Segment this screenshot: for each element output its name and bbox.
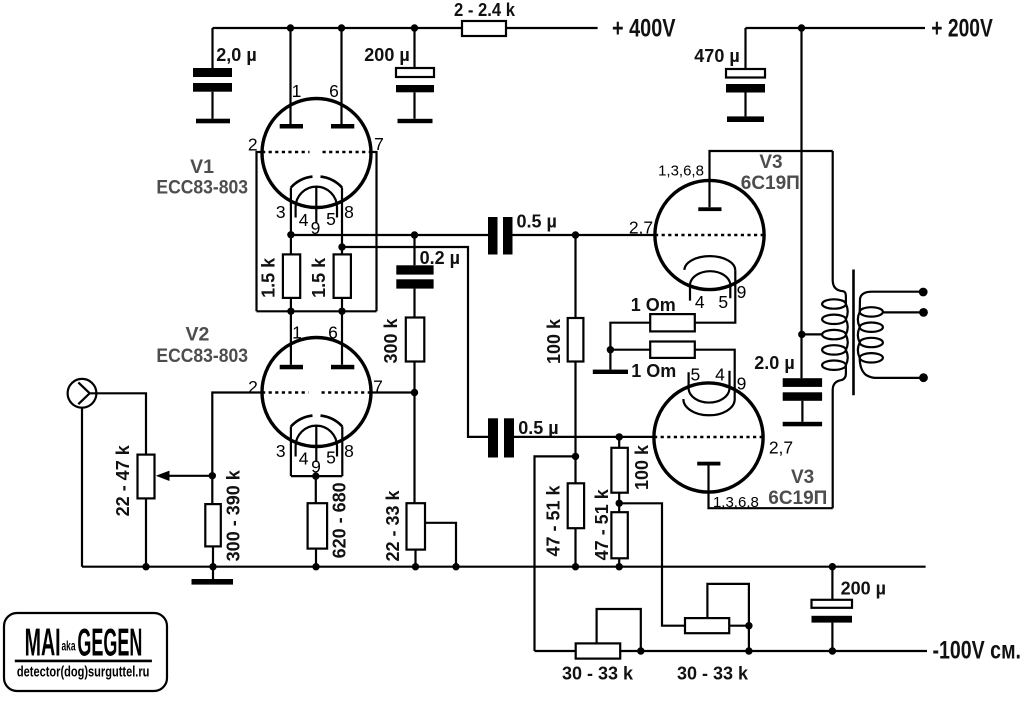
svg-text:0.2 µ: 0.2 µ xyxy=(420,248,460,268)
wire V3b cathode to transformer bottom xyxy=(709,466,833,509)
svg-text:1,3,6,8: 1,3,6,8 xyxy=(658,163,704,180)
ground under C7 xyxy=(783,422,822,427)
wire R16 tap bridge xyxy=(707,584,749,626)
wire P1 wiper xyxy=(168,475,212,477)
wire V1 pin8 cathode arm xyxy=(341,188,343,255)
svg-text:30 - 33 k: 30 - 33 k xyxy=(562,664,634,684)
svg-text:2 - 2.4 k: 2 - 2.4 k xyxy=(454,0,516,20)
resistor R12 47-51k right xyxy=(611,512,627,558)
junction 0.2u tap xyxy=(411,231,418,238)
wire R16 right lead xyxy=(729,626,749,651)
wire C8 to -100V line xyxy=(831,623,833,651)
wire R3 to junction row xyxy=(341,298,343,311)
junction ground rail at 47-51k left xyxy=(572,563,579,570)
V1 grid dashed line xyxy=(262,151,371,154)
wire V2 pin8 cathode arm xyxy=(341,427,343,477)
V2 anode plate right xyxy=(331,365,354,370)
svg-text:300 k: 300 k xyxy=(381,317,401,363)
junction V1 pin6 on rail xyxy=(338,24,345,31)
resistor R13 1 Om upper xyxy=(650,314,695,331)
resistor R6 300-390k xyxy=(205,504,221,546)
transformer T1 primary turn 4 xyxy=(822,345,846,354)
junction V2 cathode node xyxy=(312,472,319,479)
V3a cathode bar pins 1-3-6-8 xyxy=(698,207,721,211)
resistor R2 1.5k left xyxy=(283,254,300,298)
capacitor C8 200u plate bottom xyxy=(812,616,853,623)
svg-text:5: 5 xyxy=(718,292,728,312)
wire node A to C3 xyxy=(413,235,415,265)
resistor R3 1.5k right xyxy=(334,254,351,298)
wire R8 to ground rail xyxy=(414,550,416,567)
connector J1 pin symbol xyxy=(78,382,96,404)
junction ground rail at R7 xyxy=(312,563,319,570)
resistor R15 30-33k left xyxy=(576,643,621,658)
V3b cathode bar pins 1-3-6-8 xyxy=(697,462,720,466)
wire bias node to -100V line xyxy=(535,456,576,651)
svg-text:6С19П: 6С19П xyxy=(741,173,800,194)
wire +200V rail xyxy=(746,27,926,29)
junction 100k upper tap xyxy=(572,231,579,238)
wire R9 down through cross xyxy=(574,362,576,484)
wire R11 to bias node right xyxy=(618,493,620,513)
transformer T1 primary link 1 xyxy=(846,304,848,319)
svg-text:1: 1 xyxy=(292,81,302,101)
transformer T1 secondary turn 4 xyxy=(860,353,883,362)
junction bias node left xyxy=(572,453,579,460)
svg-text:4: 4 xyxy=(299,210,309,230)
svg-text:5: 5 xyxy=(691,365,701,385)
capacitor C5 0.5u right plate xyxy=(504,418,514,457)
svg-text:1.5 k: 1.5 k xyxy=(309,257,329,298)
transformer T1 primary turn 5 xyxy=(822,361,846,370)
wire V2 pin7 node to R8 xyxy=(413,393,415,504)
svg-text:47 - 51 k: 47 - 51 k xyxy=(544,484,564,556)
junction R16 right node xyxy=(745,622,752,629)
transformer T1 primary turn 3 xyxy=(822,330,846,339)
output terminal 3 xyxy=(919,373,928,382)
wire R15 tap bridge xyxy=(597,609,641,651)
junction R15 output node xyxy=(637,647,644,654)
wire to V2 pin6 xyxy=(341,311,343,365)
junction ground rail at 200u bottom xyxy=(829,563,836,570)
resistor R1 2-2.4k xyxy=(462,21,506,36)
wire V1 pin7 grid lead xyxy=(371,152,377,311)
tube V3a 6C19P envelope xyxy=(655,180,764,289)
capacitor C2 200u plate top (polarized) xyxy=(396,68,434,77)
transformer T1 secondary link 1 xyxy=(858,312,860,327)
capacitor C7 2.0u plate bottom xyxy=(783,392,822,401)
junction ground rail at P1 xyxy=(142,563,149,570)
wire R8 tap xyxy=(425,523,456,567)
wire +400V rail left segment xyxy=(213,27,463,29)
V1 anode plate right xyxy=(331,124,354,129)
wire +400V rail right segment xyxy=(506,27,598,29)
svg-text:4: 4 xyxy=(695,292,705,312)
wire C2 to ground xyxy=(413,92,415,119)
svg-text:300 - 390 k: 300 - 390 k xyxy=(224,469,244,561)
wire V2 cathode join xyxy=(291,475,342,477)
capacitor C4 0.5u right plate xyxy=(503,217,513,255)
wire R13 right lead to V3a pin9 xyxy=(695,270,736,322)
capacitor C6 470u plate bottom xyxy=(726,84,765,93)
resistor R4 300k xyxy=(406,318,425,362)
wire R2 to junction row xyxy=(290,298,292,311)
junction 100k lower tap xyxy=(616,433,623,440)
V3a grid dashed line xyxy=(655,234,764,237)
V2 anode plate left xyxy=(280,365,303,370)
junction +200V feed xyxy=(798,24,805,31)
logo divider line xyxy=(15,660,152,663)
connector J1 input xyxy=(68,379,97,408)
transformer T1 secondary link 3 xyxy=(858,343,860,358)
V3b grid dashed line xyxy=(654,436,763,439)
svg-text:2,7: 2,7 xyxy=(629,217,653,237)
svg-text:V1: V1 xyxy=(190,156,214,178)
wire V1 heater pin9 xyxy=(315,187,317,224)
V3a pin9 arc xyxy=(684,256,735,270)
svg-text:aka: aka xyxy=(62,638,76,654)
svg-text:470 µ: 470 µ xyxy=(694,46,739,66)
wire V2 pin3 cathode arm xyxy=(290,427,292,477)
svg-text:2.0 µ: 2.0 µ xyxy=(754,353,794,373)
wire R13 left lead xyxy=(610,323,650,350)
wire J1 shield down xyxy=(81,408,83,567)
wire ground symbol stub xyxy=(212,567,214,579)
transformer T1 secondary turn 3 xyxy=(860,338,883,347)
svg-text:MAI: MAI xyxy=(25,622,61,665)
capacitor C3 0.2u plate top xyxy=(396,265,433,274)
junction transformer center tap xyxy=(798,331,805,338)
wire V1 pin1 anode lead xyxy=(289,28,291,124)
svg-text:1,3,6,8: 1,3,6,8 xyxy=(713,494,759,511)
junction node A xyxy=(287,231,294,238)
svg-text:2: 2 xyxy=(248,134,258,154)
junction ground rail at R8 xyxy=(412,563,419,570)
transformer T1 primary turn 1 xyxy=(822,299,846,308)
capacitor C3 0.2u plate bottom xyxy=(396,279,433,288)
wire V1 pin2 grid lead xyxy=(257,152,263,311)
V1 anode plate left xyxy=(280,124,303,129)
transformer T1 primary top lead xyxy=(833,151,846,304)
svg-text:6: 6 xyxy=(328,323,338,343)
junction node B xyxy=(338,243,345,250)
wire R14 left lead xyxy=(610,349,650,351)
transformer T1 secondary bottom lead xyxy=(860,358,924,378)
ground under C6 xyxy=(727,116,764,122)
svg-text:9: 9 xyxy=(737,373,747,393)
junction R3 node xyxy=(338,308,345,315)
svg-text:ECC83-803: ECC83-803 xyxy=(156,345,248,367)
capacitor C1 2,0u plate bottom xyxy=(193,83,232,92)
svg-text:4: 4 xyxy=(715,365,725,385)
V1 cathode arc xyxy=(291,177,342,188)
junction R16 lower node xyxy=(745,647,752,654)
wire center tap to primary xyxy=(802,333,822,335)
svg-text:200 µ: 200 µ xyxy=(364,45,409,65)
svg-text:0.5 µ: 0.5 µ xyxy=(516,211,556,231)
wire secondary tap xyxy=(883,311,924,313)
svg-text:6: 6 xyxy=(329,81,339,101)
wire R6 to ground rail xyxy=(212,546,214,566)
svg-text:3: 3 xyxy=(276,202,286,222)
resistor R9 100k upper xyxy=(568,318,584,362)
wire wiper node to R6 xyxy=(211,476,213,504)
wire V1 cathode node A to C4 xyxy=(291,234,488,236)
ground under 1 Om xyxy=(593,370,628,374)
junction 200u lower node xyxy=(829,647,836,654)
capacitor C4 0.5u left plate xyxy=(488,217,498,255)
svg-text:5: 5 xyxy=(326,209,336,229)
wire R12 to ground rail xyxy=(618,558,620,566)
svg-text:0.5 µ: 0.5 µ xyxy=(518,418,558,438)
transformer T1 secondary turn 2 xyxy=(860,323,883,332)
wire V1 pin8 node B to C5 xyxy=(342,247,488,437)
svg-text:1 Om: 1 Om xyxy=(631,295,676,315)
svg-text:9: 9 xyxy=(311,456,321,476)
wire ground rail xyxy=(82,566,926,568)
V2 grid dashed line xyxy=(262,391,371,394)
svg-text:200 µ: 200 µ xyxy=(841,579,886,599)
wire +200V to center tap and C7 xyxy=(800,28,802,378)
junction V2 pin7 node xyxy=(411,389,418,396)
capacitor C1 2,0u plate top xyxy=(193,68,232,77)
wire R4 to V2 pin7 node xyxy=(413,362,415,393)
wire R7 to ground rail xyxy=(315,549,317,567)
wire rail to C2 xyxy=(413,28,415,68)
wire node to R11 xyxy=(618,437,620,448)
wire R14 right lead to V3b pin9 xyxy=(695,350,735,400)
V3b pin9 arc xyxy=(683,399,734,415)
tube V3b 6C19P envelope xyxy=(654,383,763,492)
capacitor C5 0.5u left plate xyxy=(488,418,498,457)
svg-text:4: 4 xyxy=(299,449,309,469)
wire R10 to ground rail xyxy=(574,528,576,567)
svg-text:GEGEN: GEGEN xyxy=(77,622,142,665)
wire V2 pin7 grid to 300k node xyxy=(371,391,415,393)
resistor R14 1 Om lower xyxy=(650,342,695,358)
svg-text:+ 200V: + 200V xyxy=(931,15,993,43)
junction ground rail at R6 xyxy=(209,563,216,570)
V3b heater dome pins 4-5 xyxy=(689,371,730,403)
wire C6 to ground xyxy=(744,93,746,117)
svg-text:22 - 47 k: 22 - 47 k xyxy=(113,444,133,516)
capacitor C2 200u plate bottom xyxy=(396,85,434,92)
junction 1 Om common node xyxy=(607,346,614,353)
wire P1 bottom to ground rail xyxy=(145,498,147,566)
wire C7 to ground xyxy=(801,401,803,422)
wire junction row y311 xyxy=(257,310,377,312)
svg-text:30 - 33 k: 30 - 33 k xyxy=(677,664,749,684)
wire rail to C6 xyxy=(744,28,746,69)
V2 heater dome pins 4-5 xyxy=(296,426,337,457)
svg-text:47 - 51 k: 47 - 51 k xyxy=(592,488,612,560)
svg-text:detector(dog)surguttel.ru: detector(dog)surguttel.ru xyxy=(17,664,150,681)
V2 cathode arc xyxy=(291,416,342,427)
svg-text:ECC83-803: ECC83-803 xyxy=(156,177,248,199)
capacitor C8 200u plate top (polarized) xyxy=(812,600,853,608)
svg-text:-100V см.: -100V см. xyxy=(933,637,1022,665)
transformer T1 primary bottom lead xyxy=(833,365,846,508)
svg-text:5: 5 xyxy=(326,448,336,468)
svg-text:8: 8 xyxy=(344,441,354,461)
wire C3 to R4 xyxy=(413,289,415,318)
wire node to R9 xyxy=(574,235,576,318)
tube V2 ECC83-803 envelope xyxy=(262,338,371,447)
transformer T1 primary link 3 xyxy=(846,335,848,350)
transformer T1 secondary link 2 xyxy=(858,327,860,342)
svg-text:1 Om: 1 Om xyxy=(631,361,676,381)
wire -100V line left xyxy=(535,650,576,652)
svg-text:620 - 680: 620 - 680 xyxy=(329,482,349,558)
svg-text:8: 8 xyxy=(344,202,354,222)
resistor R8 22-33k xyxy=(407,503,426,549)
output terminal 1 xyxy=(919,288,928,297)
ground symbol below rail xyxy=(192,579,234,585)
junction wiper node xyxy=(209,472,216,479)
wire to V2 pin1 xyxy=(290,311,292,365)
transformer T1 primary link 2 xyxy=(846,319,848,334)
transformer T1 secondary turn 1 xyxy=(860,307,883,316)
wire C1 to ground xyxy=(211,92,213,119)
wire C5 to V3b grid xyxy=(514,436,654,438)
transformer T1 secondary top lead xyxy=(860,292,923,312)
wire V2 cathode to R7 xyxy=(315,476,317,503)
V3a heater dome pins 4-5 xyxy=(690,271,730,300)
wire C4 to V3a grid xyxy=(513,234,656,236)
svg-text:2: 2 xyxy=(248,377,258,397)
tube V1 ECC83-803 envelope xyxy=(262,99,371,208)
wire V1 pin6 anode lead xyxy=(340,28,342,124)
svg-text:V2: V2 xyxy=(185,324,209,346)
capacitor C7 2.0u plate top xyxy=(783,378,822,387)
junction bias node right xyxy=(616,500,623,507)
V1 heater dome pins 4-5 xyxy=(296,187,337,218)
wire V2 heater pin9 xyxy=(315,426,317,462)
svg-text:+ 400V: + 400V xyxy=(612,15,676,43)
capacitor C6 470u plate top (polarized) xyxy=(726,69,765,78)
resistor R7 620-680 xyxy=(308,503,328,548)
svg-text:100 k: 100 k xyxy=(544,318,564,364)
svg-text:1.5 k: 1.5 k xyxy=(258,257,278,298)
transformer T1 core xyxy=(852,270,855,396)
svg-text:3: 3 xyxy=(276,441,286,461)
wire V3a cathode to transformer top xyxy=(710,151,833,207)
transformer T1 primary turn 2 xyxy=(822,315,846,324)
svg-text:7: 7 xyxy=(373,376,383,396)
junction V1 pin1 on rail xyxy=(287,24,294,31)
resistor R16 30-33k right xyxy=(685,618,729,633)
wire ground rail to C8 xyxy=(831,567,833,600)
svg-text:1: 1 xyxy=(292,323,302,343)
svg-text:6С19П: 6С19П xyxy=(768,488,827,509)
svg-text:2,7: 2,7 xyxy=(769,437,793,457)
svg-text:9: 9 xyxy=(737,282,747,302)
wire rail to C1 xyxy=(211,28,213,68)
junction 200u on rail xyxy=(411,24,418,31)
svg-text:100 k: 100 k xyxy=(632,444,652,490)
resistor R11 100k lower xyxy=(611,448,627,493)
wire V2 pin2 grid to wiper node xyxy=(212,393,262,476)
wire J1 to P1 top xyxy=(96,393,146,454)
wire V1 pin3 cathode arm xyxy=(290,188,292,255)
svg-text:V3: V3 xyxy=(759,152,782,173)
junction ground rail at 47-51k right xyxy=(616,563,623,570)
transformer T1 primary link 4 xyxy=(846,350,848,365)
junction R2 node xyxy=(287,308,294,315)
svg-text:7: 7 xyxy=(374,134,384,154)
wire -100V line right xyxy=(620,650,927,652)
svg-text:22 - 33 k: 22 - 33 k xyxy=(383,489,403,561)
wire bias node right to R15 xyxy=(619,503,685,625)
ground under C1 xyxy=(196,119,230,124)
wire 1 Om node to ground xyxy=(609,350,611,370)
output terminal 2 xyxy=(919,308,928,317)
resistor R10 47-51k left xyxy=(568,483,584,528)
svg-text:2,0 µ: 2,0 µ xyxy=(216,45,256,65)
potentiometer P1 22-47k xyxy=(138,455,155,499)
P1 wiper arrowhead xyxy=(156,471,170,481)
svg-text:V3: V3 xyxy=(791,467,814,488)
logo box xyxy=(4,613,167,691)
junction ground rail at R8 tap xyxy=(452,563,459,570)
ground under C2 xyxy=(398,119,433,123)
